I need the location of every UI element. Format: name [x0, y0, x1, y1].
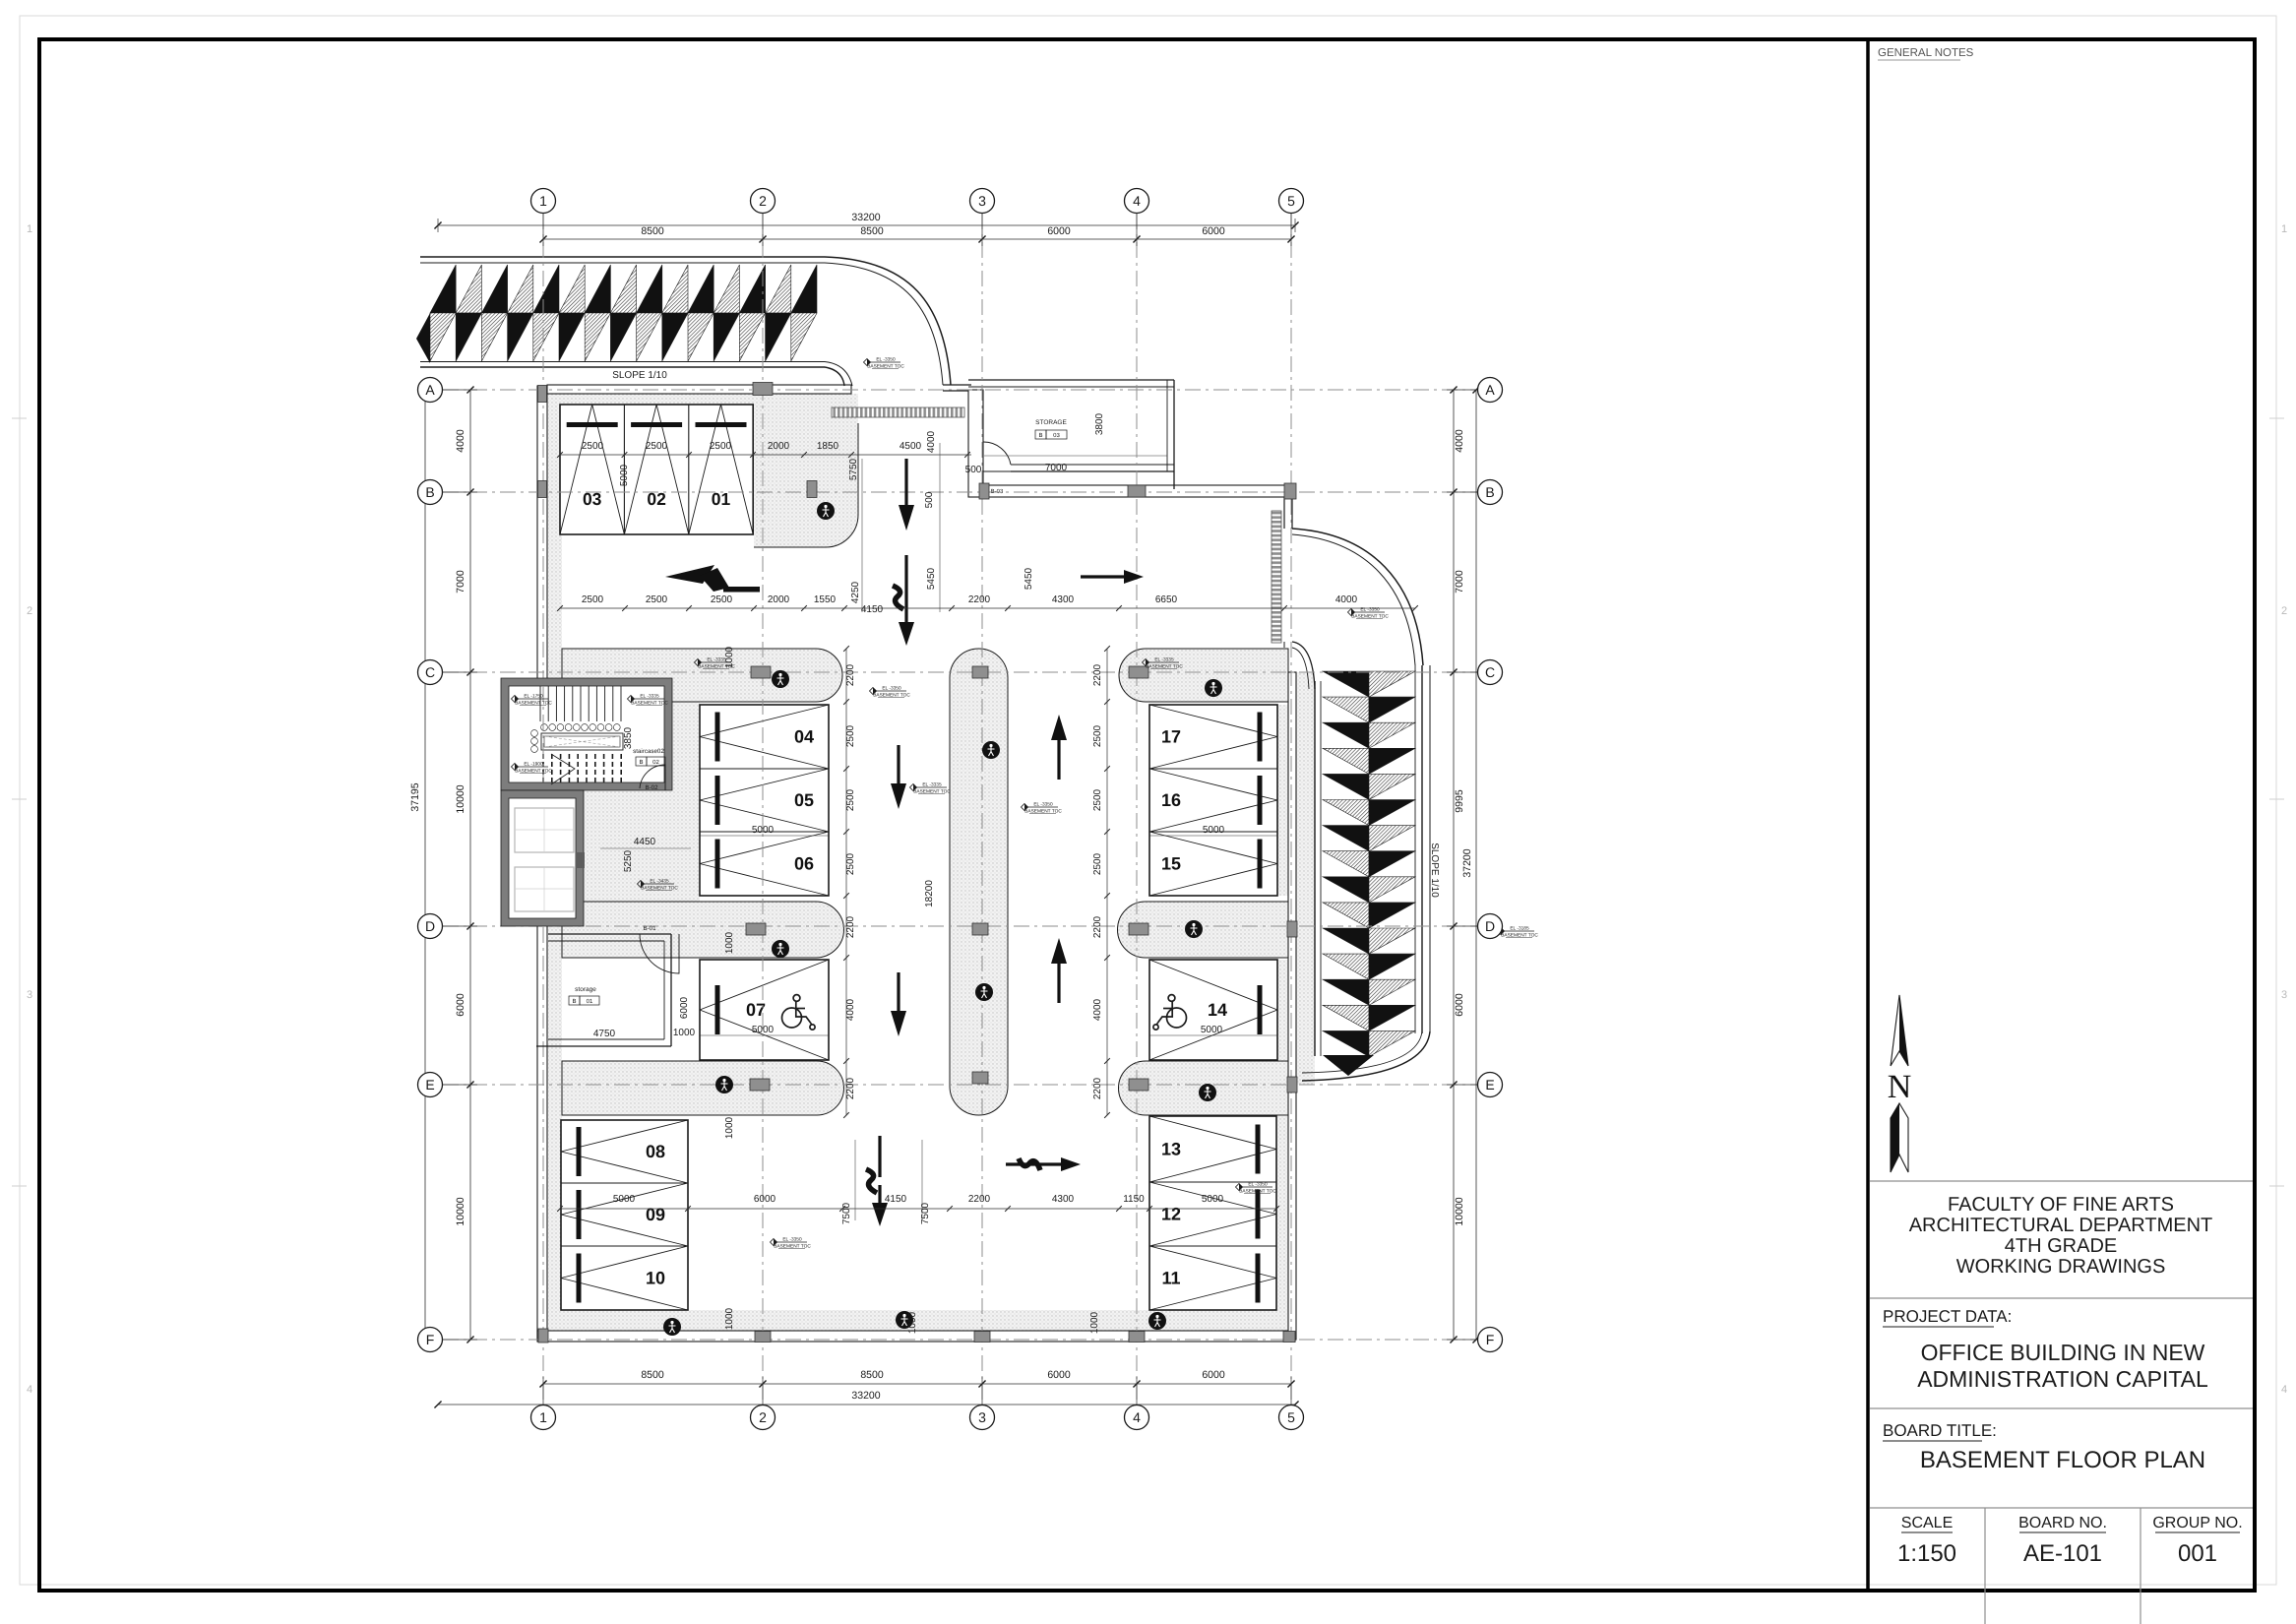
svg-text:GROUP NO.: GROUP NO.: [2152, 1515, 2242, 1531]
bottom dimension chain segments: [543, 1383, 1291, 1385]
svg-text:03: 03: [1053, 432, 1060, 439]
upper ramp boundary walls: [420, 256, 825, 258]
svg-text:500: 500: [965, 465, 982, 475]
svg-text:1: 1: [539, 1409, 547, 1425]
bottom dimension chain total: [438, 1404, 1295, 1405]
svg-text:EL -1750: EL -1750: [524, 694, 543, 700]
svg-text:5000: 5000: [752, 1025, 775, 1035]
top dimension chain total 33200: [438, 224, 1295, 226]
svg-text:4: 4: [1133, 193, 1141, 209]
svg-text:1000: 1000: [1089, 1311, 1100, 1334]
grid line 1 over stair block: [542, 686, 544, 782]
grid bubbles bottom: [531, 1405, 556, 1430]
centre vertical dim chain right: [1106, 649, 1108, 1115]
parking stalls 13 12 11: [1149, 1116, 1276, 1310]
svg-text:5000: 5000: [619, 464, 630, 486]
title block divider: [1866, 39, 1870, 1591]
svg-text:ADMINISTRATION CAPITAL: ADMINISTRATION CAPITAL: [1917, 1366, 2208, 1392]
entry grille: [832, 407, 964, 417]
svg-text:4450: 4450: [634, 837, 656, 847]
wall along B east of storage: [983, 485, 1292, 497]
svg-text:4150: 4150: [861, 604, 884, 615]
svg-text:4250: 4250: [850, 581, 861, 603]
svg-text:5000: 5000: [1203, 825, 1225, 836]
svg-text:2500: 2500: [646, 594, 668, 605]
svg-text:01: 01: [587, 998, 593, 1005]
staircase02 block walls: [509, 686, 664, 782]
svg-text:12: 12: [1161, 1205, 1181, 1224]
staircase tread number circles: [531, 724, 621, 753]
svg-text:BASEMENT FLOOR PLAN: BASEMENT FLOOR PLAN: [1920, 1447, 2205, 1473]
svg-text:1850: 1850: [817, 441, 839, 452]
svg-text:4500: 4500: [900, 441, 922, 452]
svg-text:6650: 6650: [1155, 594, 1178, 605]
svg-text:BASEMENT TOC: BASEMENT TOC: [631, 701, 668, 707]
right dimension total 37200: [1475, 390, 1477, 1340]
svg-text:16: 16: [1161, 790, 1181, 810]
north exterior wall at A: [547, 385, 851, 394]
storage B-03 door: [983, 442, 1011, 471]
central island: [950, 649, 1008, 1115]
grid bubbles top: [531, 189, 556, 214]
aisle arrow up D-E: [1057, 958, 1060, 1003]
svg-text:6000: 6000: [455, 993, 466, 1017]
svg-text:10000: 10000: [455, 1197, 466, 1225]
east grille: [1272, 511, 1281, 643]
right aisle arrow east: [1081, 575, 1129, 578]
svg-text:2000: 2000: [768, 441, 790, 452]
svg-text:PROJECT DATA:: PROJECT DATA:: [1883, 1307, 2012, 1326]
svg-text:5: 5: [1287, 1409, 1295, 1425]
svg-text:EL -3335: EL -3335: [1154, 657, 1174, 663]
svg-text:02: 02: [652, 759, 659, 766]
svg-text:8500: 8500: [641, 1369, 664, 1381]
wheelchair symbol stall 14: [1153, 995, 1187, 1031]
svg-text:06: 06: [794, 854, 814, 874]
svg-text:2500: 2500: [582, 594, 604, 605]
svg-text:1000: 1000: [673, 1028, 696, 1038]
svg-text:EL -3435: EL -3435: [650, 879, 669, 885]
svg-text:11: 11: [1161, 1269, 1180, 1288]
svg-text:4150: 4150: [885, 1194, 907, 1205]
svg-text:A: A: [425, 382, 435, 398]
svg-text:2500: 2500: [582, 441, 604, 452]
svg-text:BASEMENT TOC: BASEMENT TOC: [641, 886, 678, 892]
spot elevation markers: [864, 357, 905, 370]
svg-text:14: 14: [1208, 1000, 1227, 1020]
svg-text:4000: 4000: [845, 998, 856, 1021]
stall depth labels: [700, 835, 829, 837]
svg-text:4: 4: [27, 1384, 32, 1396]
entry drive stipple: [754, 394, 858, 547]
svg-text:4: 4: [2281, 1384, 2287, 1396]
storage B-01 walls: [548, 933, 671, 935]
svg-text:N: N: [1888, 1069, 1912, 1105]
svg-text:1: 1: [27, 223, 32, 235]
svg-text:2: 2: [27, 605, 32, 617]
staircase lower flight treads: [543, 754, 621, 784]
svg-text:7000: 7000: [455, 570, 466, 593]
svg-text:C: C: [425, 664, 435, 680]
east ramp bottom curves: [1302, 1031, 1430, 1081]
svg-text:BASEMENT TOC: BASEMENT TOC: [913, 789, 951, 795]
stipple corridor around staircase: [562, 649, 700, 705]
svg-text:4300: 4300: [1052, 594, 1075, 605]
svg-text:2500: 2500: [1092, 788, 1103, 811]
svg-text:1000: 1000: [724, 646, 735, 668]
entry drive edge: [754, 423, 858, 547]
svg-text:2: 2: [2281, 605, 2287, 617]
elevator shaft walls: [509, 798, 576, 918]
svg-text:B: B: [1485, 484, 1494, 500]
svg-text:4000: 4000: [1454, 429, 1465, 453]
svg-text:BOARD TITLE:: BOARD TITLE:: [1883, 1421, 1997, 1440]
svg-text:1000: 1000: [724, 931, 735, 954]
svg-text:3: 3: [2281, 989, 2287, 1001]
svg-text:4000: 4000: [455, 429, 466, 453]
parking stalls 08 09 10: [561, 1120, 688, 1310]
svg-text:6000: 6000: [754, 1194, 776, 1205]
svg-text:4000: 4000: [1092, 998, 1103, 1021]
right dimension chain segments: [1453, 390, 1455, 1340]
svg-text:2500: 2500: [845, 788, 856, 811]
svg-text:5750: 5750: [848, 458, 859, 480]
east corridor stipple: [1294, 672, 1315, 1085]
island pill row E left: [562, 1061, 844, 1115]
svg-text:7000: 7000: [1045, 463, 1068, 473]
svg-text:2500: 2500: [845, 724, 856, 747]
bottom aisle long arrow: [878, 1136, 881, 1177]
svg-text:5: 5: [1287, 193, 1295, 209]
island pill row C left: [562, 649, 842, 702]
svg-text:B-01: B-01: [643, 925, 656, 932]
svg-text:1150: 1150: [1123, 1194, 1145, 1205]
svg-text:ARCHITECTURAL DEPARTMENT: ARCHITECTURAL DEPARTMENT: [1909, 1215, 2213, 1236]
bottom interior dimension row: [560, 1208, 1276, 1210]
wall stub east of drive: [943, 384, 971, 386]
aisle arrow down C-D: [897, 745, 900, 789]
svg-text:13: 13: [1161, 1140, 1181, 1159]
svg-text:7000: 7000: [1454, 570, 1465, 593]
svg-text:2500: 2500: [710, 441, 732, 452]
svg-text:4: 4: [1133, 1409, 1141, 1425]
svg-text:4000: 4000: [926, 430, 937, 453]
svg-text:9995: 9995: [1454, 789, 1465, 813]
svg-text:EL -1900: EL -1900: [524, 762, 543, 768]
svg-text:6000: 6000: [1454, 993, 1465, 1017]
bottom horizontal arrow: [1006, 1162, 1061, 1165]
svg-text:37200: 37200: [1461, 848, 1473, 877]
svg-text:BASEMENT TOC: BASEMENT TOC: [1239, 1189, 1276, 1195]
svg-text:2: 2: [759, 1409, 767, 1425]
vertical grid lines 1-5: [542, 214, 544, 1405]
svg-text:2500: 2500: [1092, 724, 1103, 747]
svg-text:2200: 2200: [1092, 1077, 1103, 1099]
svg-text:AE-101: AE-101: [2023, 1540, 2102, 1567]
svg-text:05: 05: [794, 790, 814, 810]
north compass: [1888, 995, 1912, 1172]
svg-text:5450: 5450: [926, 567, 937, 590]
svg-text:BASEMENT TOC: BASEMENT TOC: [1024, 809, 1062, 815]
svg-text:EL -3185: EL -3185: [1510, 926, 1529, 932]
grid bubbles right: [1478, 378, 1503, 403]
east ramp outer wall: [1414, 665, 1416, 1033]
svg-text:4750: 4750: [593, 1029, 616, 1039]
svg-text:10: 10: [646, 1269, 665, 1288]
svg-text:2500: 2500: [711, 594, 733, 605]
svg-text:6000: 6000: [679, 996, 690, 1019]
staircase direction arrow: [551, 754, 575, 784]
entry arrow down: [904, 459, 907, 511]
svg-text:1: 1: [539, 193, 547, 209]
parking stalls 17 16 15: [1149, 705, 1277, 896]
svg-text:10000: 10000: [455, 784, 466, 813]
svg-text:2500: 2500: [845, 852, 856, 875]
margin zone ticks: [12, 417, 27, 419]
svg-text:2500: 2500: [646, 441, 668, 452]
east ramp top curves: [1292, 529, 1423, 665]
svg-text:10000: 10000: [1454, 1197, 1465, 1225]
svg-text:BASEMENT TOC: BASEMENT TOC: [774, 1244, 811, 1250]
grid bubbles left: [418, 378, 443, 403]
parking stalls 04 05 06: [700, 705, 829, 896]
svg-text:8500: 8500: [641, 225, 664, 237]
svg-text:D: D: [425, 918, 435, 934]
aisle arrow up C-D: [1057, 734, 1060, 780]
svg-text:6000: 6000: [1202, 225, 1225, 237]
centre vertical dim chain left: [845, 649, 847, 1115]
svg-text:8500: 8500: [860, 225, 884, 237]
svg-text:6000: 6000: [1202, 1369, 1225, 1381]
east ramp inner wall: [1314, 681, 1316, 1056]
island pill row C right: [1119, 649, 1288, 702]
elevator cars: [515, 808, 574, 852]
svg-text:WORKING DRAWINGS: WORKING DRAWINGS: [1956, 1256, 2166, 1278]
svg-text:FACULTY OF FINE ARTS: FACULTY OF FINE ARTS: [1948, 1194, 2174, 1216]
svg-text:EL -3335: EL -3335: [640, 694, 659, 700]
svg-text:F: F: [426, 1332, 435, 1347]
svg-text:5000: 5000: [1201, 1025, 1223, 1035]
svg-text:5450: 5450: [1024, 567, 1034, 590]
svg-text:500: 500: [924, 491, 935, 508]
west exterior wall: [537, 386, 547, 1340]
svg-text:EL -3350: EL -3350: [1360, 607, 1380, 613]
svg-text:STORAGE: STORAGE: [1035, 419, 1067, 426]
svg-text:A: A: [1485, 382, 1495, 398]
island pill row E right: [1119, 1061, 1289, 1115]
svg-text:2200: 2200: [968, 1194, 991, 1205]
svg-text:4000: 4000: [1335, 594, 1358, 605]
ramp inner curved wall: [825, 362, 852, 387]
svg-text:BASEMENT TOC: BASEMENT TOC: [515, 701, 552, 707]
left dimension chain segments: [469, 390, 471, 1340]
island pill row D left: [562, 902, 844, 958]
svg-text:1: 1: [2281, 223, 2287, 235]
svg-text:E: E: [425, 1077, 434, 1093]
left dimension total 37195: [424, 390, 426, 1340]
svg-text:OFFICE BUILDING IN NEW: OFFICE BUILDING IN NEW: [1921, 1340, 2205, 1365]
bottom corridor stipple: [548, 1310, 1294, 1331]
svg-text:B: B: [572, 998, 576, 1005]
svg-text:BASEMENT TOC: BASEMENT TOC: [1501, 933, 1538, 939]
svg-text:EL -3350: EL -3350: [1033, 802, 1053, 808]
svg-text:2200: 2200: [845, 1077, 856, 1099]
svg-text:staircase02: staircase02: [633, 748, 664, 755]
svg-text:storage: storage: [575, 986, 596, 993]
staircase door B-02: [640, 765, 665, 790]
wheelchair symbol stall 07: [782, 995, 816, 1031]
svg-text:5000: 5000: [1202, 1194, 1224, 1205]
upper ramp chevron tread pattern: [430, 265, 817, 361]
svg-text:17: 17: [1161, 727, 1181, 747]
interior dimension row y462: [560, 454, 971, 456]
entry arrow with slope break: [904, 555, 907, 602]
svg-text:GENERAL NOTES: GENERAL NOTES: [1878, 47, 1974, 59]
svg-text:08: 08: [646, 1142, 665, 1161]
svg-text:2200: 2200: [845, 663, 856, 686]
ramp outer curved wall: [825, 257, 951, 385]
svg-text:33200: 33200: [851, 212, 880, 223]
svg-text:BOARD NO.: BOARD NO.: [2018, 1515, 2107, 1531]
staircase landing: [541, 733, 623, 750]
svg-text:33200: 33200: [851, 1390, 880, 1402]
svg-text:1000: 1000: [907, 1311, 918, 1334]
parking stall 07 (accessible): [700, 960, 829, 1060]
svg-text:5000: 5000: [613, 1194, 636, 1205]
structural columns: [751, 666, 771, 678]
svg-text:BASEMENT TOC: BASEMENT TOC: [867, 364, 904, 370]
svg-text:2200: 2200: [968, 594, 991, 605]
svg-text:3800: 3800: [1094, 412, 1105, 435]
aisle arrow down D-E: [897, 972, 900, 1017]
svg-text:2200: 2200: [1092, 915, 1103, 938]
parking stall 14 (accessible): [1149, 960, 1277, 1060]
east wall C-F: [1288, 672, 1296, 1340]
svg-text:BASEMENT TOC: BASEMENT TOC: [873, 693, 910, 699]
svg-text:1:150: 1:150: [1897, 1540, 1956, 1567]
east ramp exit arrowhead: [1323, 1055, 1374, 1076]
svg-text:B-02: B-02: [645, 784, 658, 791]
svg-text:2200: 2200: [845, 915, 856, 938]
svg-text:B: B: [639, 759, 643, 766]
svg-text:1000: 1000: [724, 1307, 735, 1330]
svg-text:EL -3335: EL -3335: [922, 782, 942, 788]
staircase upper flight treads: [540, 686, 621, 721]
title block dividers: [1870, 1180, 2253, 1182]
svg-text:2500: 2500: [1092, 852, 1103, 875]
interior dimension row y618: [560, 607, 1415, 609]
svg-text:04: 04: [794, 727, 814, 747]
turn arrow near stalls 01-03: [665, 565, 760, 593]
svg-text:BASEMENT TOC: BASEMENT TOC: [1146, 664, 1183, 670]
svg-text:7500: 7500: [920, 1202, 931, 1224]
svg-text:1000: 1000: [724, 1116, 735, 1139]
svg-text:F: F: [1486, 1332, 1495, 1347]
svg-text:5250: 5250: [623, 849, 634, 872]
svg-text:3: 3: [978, 193, 986, 209]
svg-text:15: 15: [1161, 854, 1181, 874]
svg-text:BASEMENT TOC: BASEMENT TOC: [1351, 614, 1389, 620]
elevator door jamb: [576, 852, 585, 868]
island pill row D right: [1118, 902, 1289, 958]
upper ramp direction arrowhead: [416, 313, 430, 363]
svg-text:6000: 6000: [1047, 1369, 1071, 1381]
svg-text:09: 09: [646, 1205, 665, 1224]
svg-text:SCALE: SCALE: [1901, 1515, 1953, 1531]
svg-text:2000: 2000: [768, 594, 790, 605]
svg-text:7500: 7500: [841, 1202, 852, 1224]
svg-text:SLOPE 1/10: SLOPE 1/10: [1429, 843, 1440, 898]
svg-text:EL -3350: EL -3350: [876, 357, 896, 363]
svg-text:E: E: [1485, 1077, 1494, 1093]
east ramp chevron tread pattern: [1323, 671, 1415, 1057]
svg-text:18200: 18200: [924, 880, 935, 907]
svg-text:B: B: [425, 484, 434, 500]
drive aisle stipple west strip: [548, 394, 562, 1331]
top dimension chain segments: [543, 238, 1291, 240]
svg-text:D: D: [1485, 918, 1495, 934]
svg-text:C: C: [1485, 664, 1495, 680]
svg-text:BASEMENT TOC: BASEMENT TOC: [515, 769, 552, 775]
svg-text:4300: 4300: [1052, 1194, 1075, 1205]
top grid extension stems: [542, 214, 544, 246]
south exterior wall at F: [537, 1331, 1295, 1342]
svg-text:B: B: [1038, 432, 1042, 439]
svg-text:3: 3: [978, 1409, 986, 1425]
svg-text:3850: 3850: [623, 726, 634, 749]
svg-text:2: 2: [759, 193, 767, 209]
svg-text:001: 001: [2178, 1540, 2217, 1567]
parking stalls 03 02 01: [560, 405, 753, 534]
svg-text:SLOPE 1/10: SLOPE 1/10: [612, 370, 667, 381]
svg-text:37195: 37195: [409, 782, 421, 811]
svg-text:2200: 2200: [1092, 663, 1103, 686]
svg-text:5000: 5000: [752, 825, 775, 836]
svg-text:EL -3350: EL -3350: [782, 1237, 802, 1243]
svg-text:6000: 6000: [1047, 225, 1071, 237]
svg-text:EL -3350: EL -3350: [1248, 1182, 1268, 1188]
svg-text:1550: 1550: [814, 594, 837, 605]
storage B-03 walls: [968, 390, 983, 497]
svg-text:EL -3350: EL -3350: [882, 686, 901, 692]
svg-text:3: 3: [27, 989, 32, 1001]
svg-text:4TH GRADE: 4TH GRADE: [2005, 1235, 2117, 1257]
horizontal grid lines A-F: [443, 389, 1477, 391]
pedestrian circulation markers: [817, 502, 835, 520]
svg-text:8500: 8500: [860, 1369, 884, 1381]
